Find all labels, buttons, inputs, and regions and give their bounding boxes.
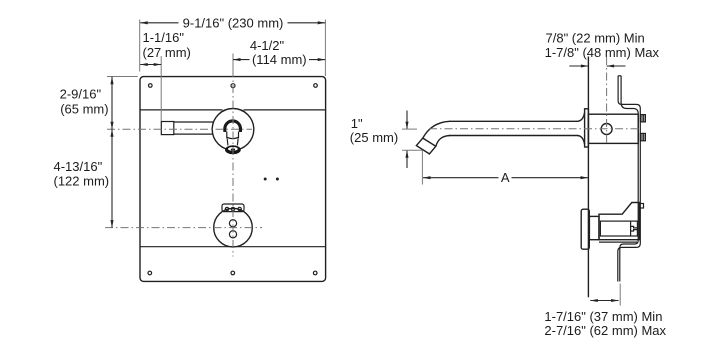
- svg-text:1-7/16" (37 mm) Min: 1-7/16" (37 mm) Min: [544, 309, 662, 324]
- svg-text:1-7/8" (48 mm) Max: 1-7/8" (48 mm) Max: [545, 45, 660, 60]
- svg-text:(25 mm): (25 mm): [350, 130, 398, 145]
- svg-text:2-7/16" (62 mm) Max: 2-7/16" (62 mm) Max: [544, 323, 666, 338]
- svg-text:2-9/16": 2-9/16": [60, 87, 102, 102]
- svg-text:4-1/2": 4-1/2": [250, 38, 285, 53]
- svg-text:(122 mm): (122 mm): [54, 174, 110, 189]
- svg-text:(65 mm): (65 mm): [60, 101, 108, 116]
- svg-text:(27 mm): (27 mm): [143, 45, 191, 60]
- svg-text:A: A: [501, 170, 510, 185]
- svg-text:9-1/16" (230 mm): 9-1/16" (230 mm): [183, 16, 284, 31]
- svg-text:1-1/16": 1-1/16": [143, 30, 185, 45]
- svg-text:(114 mm): (114 mm): [252, 52, 307, 67]
- svg-text:4-13/16": 4-13/16": [54, 159, 103, 174]
- svg-text:7/8" (22 mm) Min: 7/8" (22 mm) Min: [546, 30, 645, 45]
